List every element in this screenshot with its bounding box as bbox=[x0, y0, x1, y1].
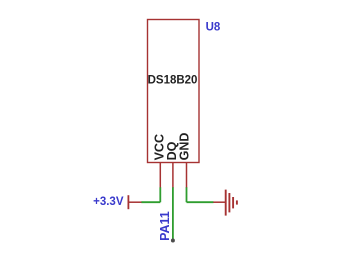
wire VCC horizontal bbox=[141, 201, 160, 203]
svg-text:GND: GND bbox=[178, 133, 192, 161]
ground lead bbox=[213, 201, 225, 203]
pin DQ bbox=[172, 163, 174, 189]
power port +3.3V lead bbox=[128, 201, 141, 203]
ground bar 2 bbox=[228, 193, 230, 212]
pin GND bbox=[186, 163, 188, 189]
svg-text:+3.3V: +3.3V bbox=[93, 196, 124, 208]
ground bar 1 bbox=[225, 190, 227, 216]
svg-text:PA11: PA11 bbox=[158, 211, 172, 241]
ground bar 4 bbox=[236, 200, 238, 204]
wire GND horizontal bbox=[187, 201, 214, 203]
wire end dot bbox=[171, 239, 175, 243]
component U8 body rectangle bbox=[148, 20, 200, 163]
svg-text:U8: U8 bbox=[206, 22, 221, 34]
svg-text:DS18B20: DS18B20 bbox=[148, 74, 198, 86]
wire DQ vertical bbox=[172, 187, 174, 240]
wire GND vertical bbox=[186, 187, 188, 202]
power port +3.3V bar bbox=[127, 195, 129, 209]
wire VCC vertical bbox=[159, 187, 161, 202]
ground bar 3 bbox=[232, 197, 234, 208]
pin VCC bbox=[159, 163, 161, 189]
